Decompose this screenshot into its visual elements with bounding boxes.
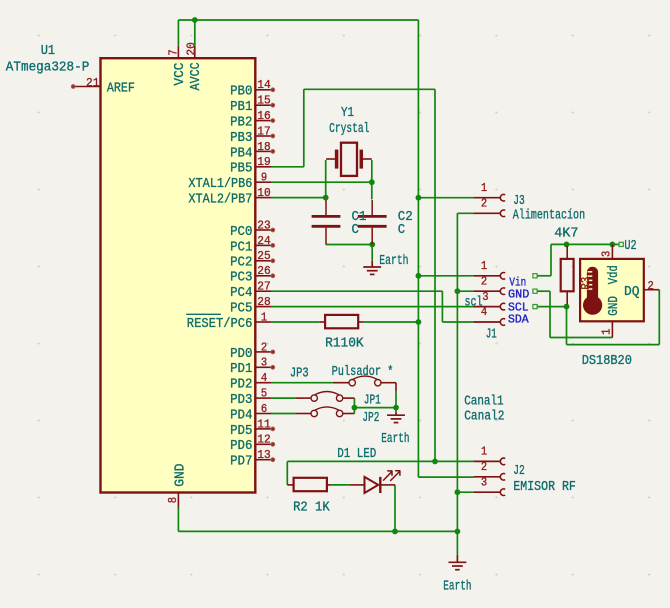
svg-text:Earth: Earth: [381, 432, 409, 447]
svg-text:24: 24: [257, 234, 270, 248]
svg-text:R3: R3: [579, 277, 593, 290]
svg-text:PD0: PD0: [230, 347, 252, 362]
svg-text:Earth: Earth: [379, 254, 408, 269]
svg-text:11: 11: [257, 417, 270, 431]
svg-text:GND: GND: [508, 288, 529, 301]
svg-text:JP3: JP3: [290, 366, 309, 381]
svg-text:7: 7: [167, 49, 181, 55]
svg-text:R2 1K: R2 1K: [293, 500, 330, 515]
svg-text:27: 27: [257, 280, 270, 294]
svg-text:4: 4: [261, 371, 267, 385]
svg-text:XTAL1/PB6: XTAL1/PB6: [188, 177, 252, 192]
svg-text:3: 3: [600, 251, 614, 257]
svg-text:C: C: [352, 223, 359, 238]
svg-text:2: 2: [261, 340, 267, 354]
svg-text:XTAL2/PB7: XTAL2/PB7: [188, 193, 252, 208]
svg-text:26: 26: [257, 264, 270, 278]
svg-text:1: 1: [600, 329, 614, 335]
svg-text:2: 2: [648, 279, 654, 293]
svg-text:14: 14: [257, 78, 270, 92]
svg-text:2: 2: [481, 274, 487, 288]
svg-text:20: 20: [184, 42, 198, 55]
svg-text:3: 3: [261, 356, 267, 370]
svg-text:8: 8: [166, 497, 180, 503]
svg-text:PD7: PD7: [230, 455, 252, 470]
svg-text:12: 12: [257, 433, 270, 447]
svg-text:Canal1: Canal1: [464, 394, 503, 409]
svg-text:13: 13: [257, 448, 270, 462]
svg-text:RESET/PC6: RESET/PC6: [187, 317, 253, 332]
svg-text:PB1: PB1: [230, 100, 252, 115]
svg-text:2: 2: [481, 197, 487, 211]
svg-text:U2: U2: [624, 239, 636, 254]
svg-text:PC0: PC0: [230, 225, 252, 240]
svg-text:PD1: PD1: [230, 362, 252, 377]
svg-text:DQ: DQ: [624, 285, 640, 300]
svg-text:Alimentacíon: Alimentacíon: [513, 209, 585, 224]
svg-text:1: 1: [481, 259, 487, 273]
svg-text:17: 17: [257, 124, 270, 138]
svg-text:18: 18: [257, 140, 270, 154]
svg-text:1: 1: [481, 445, 487, 459]
svg-text:AVCC: AVCC: [189, 62, 204, 90]
svg-text:Vdd: Vdd: [607, 265, 622, 284]
svg-text:PD4: PD4: [230, 408, 252, 423]
svg-text:16: 16: [257, 109, 270, 123]
svg-text:19: 19: [257, 155, 270, 169]
svg-text:PC3: PC3: [230, 271, 252, 286]
svg-text:Crystal: Crystal: [329, 122, 369, 137]
svg-text:PC4: PC4: [230, 286, 252, 301]
svg-text:GND: GND: [607, 296, 622, 316]
svg-text:Canal2: Canal2: [464, 410, 504, 425]
svg-text:DS18B20: DS18B20: [582, 354, 632, 369]
svg-text:PC2: PC2: [230, 256, 252, 271]
svg-text:Earth: Earth: [443, 580, 471, 595]
svg-text:PB0: PB0: [230, 85, 252, 100]
svg-text:1: 1: [481, 181, 487, 195]
svg-text:28: 28: [257, 295, 270, 309]
svg-text:PB2: PB2: [230, 116, 252, 131]
svg-text:PD6: PD6: [230, 439, 252, 454]
svg-text:PC1: PC1: [230, 240, 252, 255]
svg-text:6: 6: [261, 402, 267, 416]
svg-text:D1 LED: D1 LED: [337, 447, 376, 462]
svg-text:J2: J2: [513, 464, 525, 479]
svg-text:R110K: R110K: [325, 337, 364, 352]
svg-text:GND: GND: [173, 464, 188, 487]
svg-text:25: 25: [257, 249, 270, 263]
svg-text:J1: J1: [486, 328, 497, 343]
svg-text:scl: scl: [465, 295, 483, 310]
svg-text:10: 10: [257, 186, 270, 200]
svg-text:21: 21: [86, 76, 99, 90]
svg-text:4K7: 4K7: [554, 226, 578, 241]
svg-text:C: C: [398, 223, 405, 238]
svg-text:9: 9: [261, 171, 267, 185]
svg-text:ATmega328-P: ATmega328-P: [6, 61, 90, 76]
svg-text:PD3: PD3: [230, 393, 252, 408]
svg-text:PB3: PB3: [230, 131, 252, 146]
svg-text:AREF: AREF: [107, 81, 135, 96]
svg-text:U1: U1: [41, 44, 55, 59]
svg-text:23: 23: [257, 218, 270, 232]
svg-text:PB5: PB5: [230, 162, 252, 177]
svg-text:JP2: JP2: [362, 411, 379, 426]
svg-text:5: 5: [261, 387, 267, 401]
svg-text:PD5: PD5: [230, 424, 252, 439]
svg-text:PD2: PD2: [230, 378, 252, 393]
svg-text:PC5: PC5: [230, 302, 252, 317]
svg-text:15: 15: [257, 94, 270, 108]
svg-text:PB4: PB4: [230, 146, 252, 161]
svg-text:J3: J3: [513, 194, 525, 209]
svg-text:JP1: JP1: [364, 393, 381, 408]
svg-text:Pulsador *: Pulsador *: [332, 365, 394, 380]
svg-text:Y1: Y1: [341, 106, 354, 121]
svg-text:3: 3: [482, 290, 488, 304]
svg-text:2: 2: [481, 460, 487, 474]
svg-text:EMISOR RF: EMISOR RF: [513, 480, 576, 495]
svg-text:3: 3: [481, 475, 487, 489]
svg-text:VCC: VCC: [173, 63, 188, 86]
svg-text:1: 1: [261, 310, 267, 324]
svg-text:SDA: SDA: [508, 313, 529, 326]
